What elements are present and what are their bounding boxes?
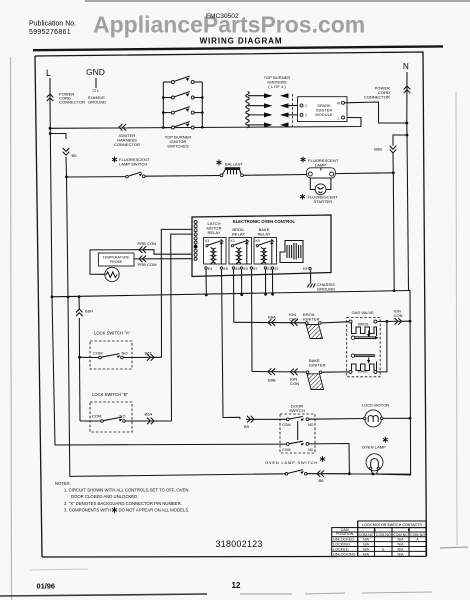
svg-text:BALLAST: BALLAST xyxy=(225,162,243,167)
svg-text:RELAY: RELAY xyxy=(257,231,270,236)
svg-text:LAMP SWITCH: LAMP SWITCH xyxy=(119,162,147,167)
svg-text:B9: B9 xyxy=(244,424,250,429)
svg-text:COM-NO: COM-NO xyxy=(410,533,425,537)
svg-text:COM: COM xyxy=(282,423,291,427)
svg-text:COM-NC: COM-NC xyxy=(393,533,408,537)
svg-text:CON: CON xyxy=(394,313,403,318)
svg-text:3. COMPONENTS WITH: 3. COMPONENTS WITH xyxy=(64,508,111,513)
svg-text:N/A: N/A xyxy=(398,552,405,556)
svg-text:MODULE: MODULE xyxy=(315,112,333,117)
svg-text:L: L xyxy=(46,68,51,78)
svg-text:N: N xyxy=(337,100,340,105)
svg-text:PRB COM: PRB COM xyxy=(138,262,157,267)
svg-text:B6H: B6H xyxy=(85,309,93,314)
svg-text:LOCK SWITCH "A": LOCK SWITCH "A" xyxy=(94,331,131,336)
svg-text:B9B: B9B xyxy=(268,378,276,383)
svg-text:PROBE: PROBE xyxy=(110,260,123,264)
svg-text:LAMP: LAMP xyxy=(315,162,326,167)
svg-text:GND: GND xyxy=(86,67,105,77)
svg-text:COM: COM xyxy=(93,351,102,356)
svg-text:Publication No.: Publication No. xyxy=(29,21,76,28)
svg-text:LOCKING: LOCKING xyxy=(333,543,350,547)
svg-text:FMC30502: FMC30502 xyxy=(206,13,239,20)
svg-text:LOCKED: LOCKED xyxy=(333,548,349,552)
svg-text:1. CIRCUIT SHOWN WITH ALL CON: 1. CIRCUIT SHOWN WITH ALL CONTROLS SET T… xyxy=(64,488,188,493)
svg-text:GROUND: GROUND xyxy=(88,100,106,105)
svg-text:LOCK SWITCH "B": LOCK SWITCH "B" xyxy=(92,392,129,397)
svg-text:PRB CON: PRB CON xyxy=(138,241,157,246)
svg-text:COM-NC: COM-NC xyxy=(359,533,374,537)
svg-text:BAKE: BAKE xyxy=(358,370,368,374)
svg-text:CONNECTOR: CONNECTOR xyxy=(59,100,85,105)
svg-text:SWITCHES: SWITCHES xyxy=(167,143,189,148)
svg-text:CTL: CTL xyxy=(93,89,99,93)
svg-text:B6B: B6B xyxy=(374,147,382,152)
svg-text:N/A: N/A xyxy=(363,548,370,552)
svg-text:RELAY: RELAY xyxy=(232,231,245,236)
svg-text:12: 12 xyxy=(232,581,241,590)
svg-text:5995276861: 5995276861 xyxy=(29,29,71,36)
svg-text:E7: E7 xyxy=(254,267,258,271)
svg-text:WIRING DIAGRAM: WIRING DIAGRAM xyxy=(200,37,283,46)
svg-text:ELECTRONIC OVEN CONTROL: ELECTRONIC OVEN CONTROL xyxy=(233,219,296,224)
svg-text:COM: COM xyxy=(282,448,291,452)
svg-text:B6: B6 xyxy=(319,478,325,483)
svg-text:N/A: N/A xyxy=(398,548,405,552)
svg-text:B6A: B6A xyxy=(145,412,153,417)
svg-text:POSITION: POSITION xyxy=(336,532,354,536)
svg-text:UNLOCKING: UNLOCKING xyxy=(333,552,356,556)
svg-text:GROUND: GROUND xyxy=(317,286,335,291)
svg-text:E4: E4 xyxy=(208,267,212,271)
svg-text:E5: E5 xyxy=(224,267,228,271)
svg-text:STARTER: STARTER xyxy=(314,199,333,204)
svg-text:CON: CON xyxy=(290,381,299,386)
svg-text:B8A: B8A xyxy=(268,315,276,320)
svg-text:N: N xyxy=(403,62,409,71)
svg-text:E3: E3 xyxy=(303,267,307,271)
svg-text:GAS VALVE: GAS VALVE xyxy=(352,310,375,315)
svg-text:( 1 OF 4 ): ( 1 OF 4 ) xyxy=(268,84,286,89)
svg-text:LOCK MOTOR SWITCH CONTACTS: LOCK MOTOR SWITCH CONTACTS xyxy=(362,523,422,527)
svg-text:NO: NO xyxy=(308,423,314,427)
svg-text:318002123: 318002123 xyxy=(216,539,263,549)
svg-text:COM: COM xyxy=(92,414,101,419)
svg-text:E6: E6 xyxy=(236,267,240,271)
svg-text:RELAY: RELAY xyxy=(207,230,220,235)
svg-text:N/A: N/A xyxy=(398,538,405,542)
svg-text:N/A: N/A xyxy=(398,543,405,547)
svg-text:DOOR CLOSED AND UNLOCKED.: DOOR CLOSED AND UNLOCKED. xyxy=(71,494,138,499)
svg-text:TEMPERATURE: TEMPERATURE xyxy=(103,255,130,259)
svg-text:COM-NO: COM-NO xyxy=(376,533,391,537)
svg-text:UNLOCKED: UNLOCKED xyxy=(333,538,354,542)
svg-text:2. "X" DENOTES BACKGUARD CONN: 2. "X" DENOTES BACKGUARD CONNECTOR PIN N… xyxy=(64,501,182,506)
svg-text:SWITCH: SWITCH xyxy=(289,408,305,413)
svg-text:CONNECTOR: CONNECTOR xyxy=(364,94,390,99)
svg-text:NC: NC xyxy=(308,448,314,452)
svg-text:N/A: N/A xyxy=(363,538,370,542)
svg-text:B6: B6 xyxy=(72,153,78,158)
svg-text:E1: E1 xyxy=(275,267,279,271)
svg-text:IGNITER: IGNITER xyxy=(303,316,320,321)
svg-text:N/A: N/A xyxy=(363,543,370,547)
svg-text:IGNITER: IGNITER xyxy=(309,362,326,367)
svg-text:CONNECTOR: CONNECTOR xyxy=(114,142,140,147)
svg-text:01/96: 01/96 xyxy=(37,582,56,591)
svg-text:BROIL: BROIL xyxy=(358,322,369,326)
svg-text:OVEN LAMP: OVEN LAMP xyxy=(362,445,386,450)
svg-text:E9: E9 xyxy=(244,267,248,271)
svg-text:NO: NO xyxy=(122,351,128,356)
svg-text:LOCK MOTOR: LOCK MOTOR xyxy=(362,403,389,408)
svg-text:N/A: N/A xyxy=(363,552,370,556)
svg-text:OVEN LAMP SWITCH: OVEN LAMP SWITCH xyxy=(265,460,318,465)
svg-text:NOTES:: NOTES: xyxy=(55,481,71,486)
svg-text:DO NOT APPEAR ON ALL MODELS.: DO NOT APPEAR ON ALL MODELS. xyxy=(119,508,190,513)
